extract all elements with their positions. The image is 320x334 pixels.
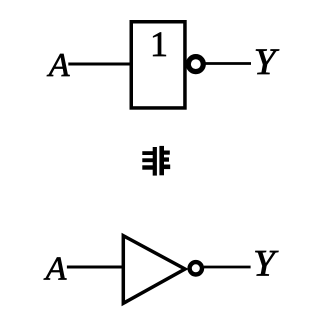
gate U2 ANSI inverter triangle: [123, 236, 185, 304]
wire (bottom input): [67, 266, 124, 269]
svg-text:A: A: [47, 47, 70, 84]
inversion bubble (bottom gate): [190, 262, 202, 274]
wire (top output): [205, 62, 251, 65]
right bar 2: [164, 157, 170, 161]
right bar 3: [164, 165, 171, 170]
inversion bubble (top gate): [188, 57, 203, 72]
wire (bottom output): [204, 266, 251, 269]
gate U1 IEC NOT symbol body: [131, 22, 185, 108]
right vertical stroke: [159, 146, 164, 175]
left bar 3: [142, 165, 153, 169]
svg-text:A: A: [44, 250, 67, 287]
left bar 1: [142, 151, 153, 155]
right bar 1: [164, 151, 170, 155]
svg-text:1: 1: [150, 24, 168, 64]
character FEI (non/NOT) drawn as strokes: [142, 146, 170, 176]
left vertical stroke: [153, 147, 157, 176]
left bar 2: [142, 158, 153, 162]
wire (top input): [68, 63, 131, 66]
